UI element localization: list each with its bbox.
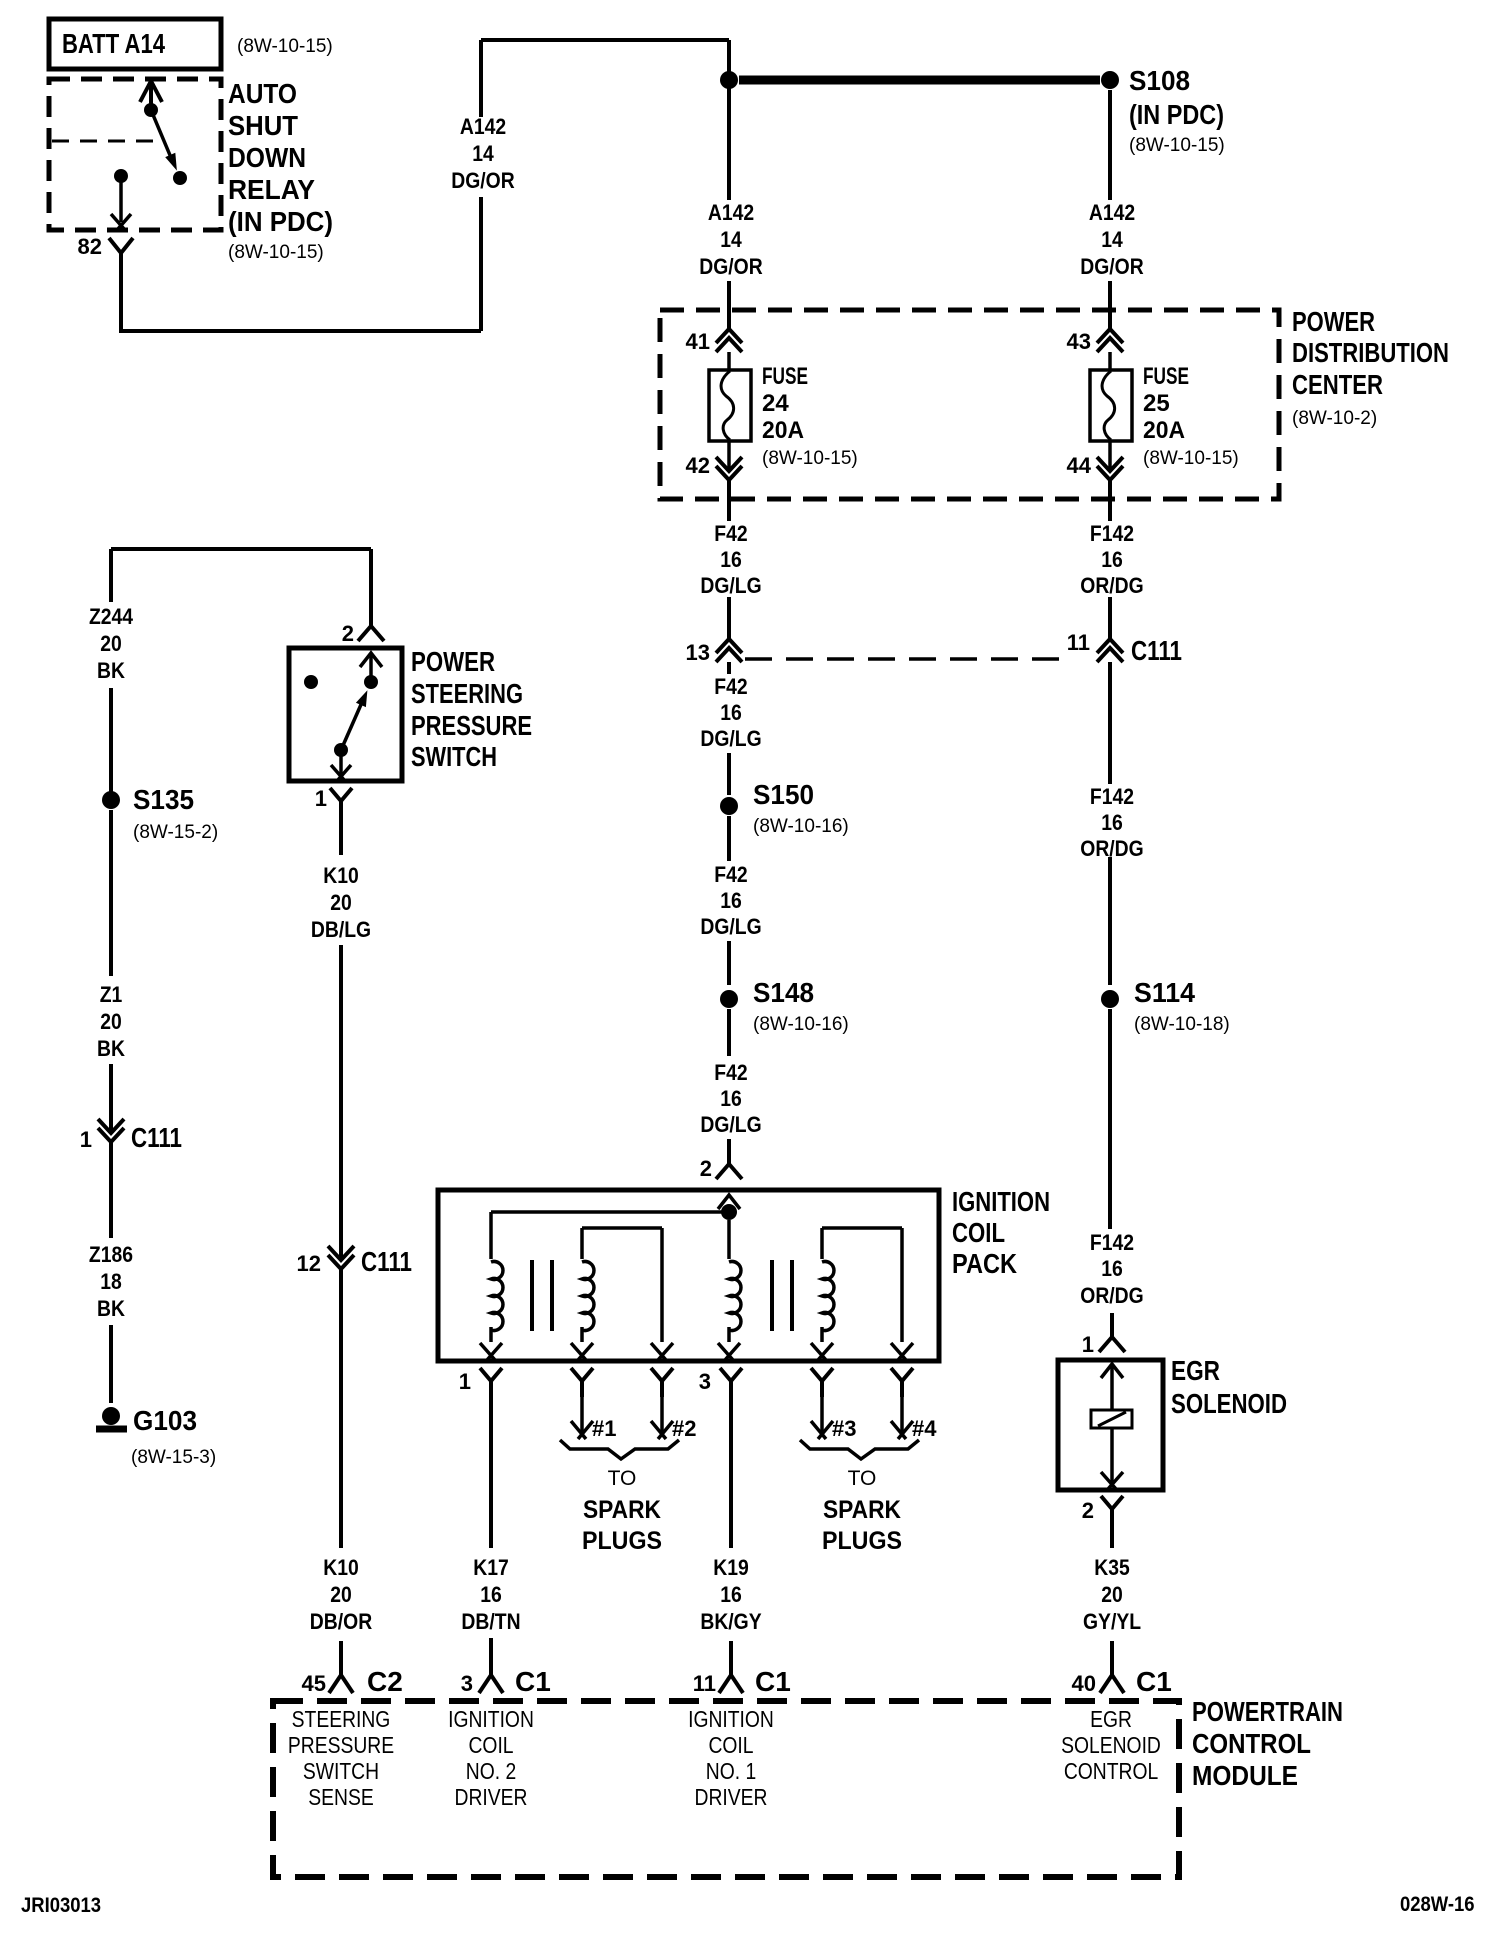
svg-text:S114: S114	[1134, 977, 1195, 1008]
wire switch pin1 to C111 pin 12	[339, 817, 343, 1259]
svg-text:(8W-10-16): (8W-10-16)	[753, 816, 849, 837]
svg-text:STEERING: STEERING	[292, 1708, 391, 1733]
PCM pin 11 connector C1	[693, 1641, 791, 1697]
svg-text:DRIVER: DRIVER	[455, 1786, 528, 1811]
svg-text:NO. 1: NO. 1	[706, 1760, 756, 1785]
fuse 24 labels	[762, 363, 858, 469]
wire fuse24 to C111 pin 13	[727, 480, 731, 639]
spark plug lead #2 arrow	[651, 1397, 696, 1441]
wire label A142 14 DG/OR (left)	[451, 115, 514, 193]
svg-text:JRI03013: JRI03013	[21, 1894, 101, 1917]
ground G103 labels	[131, 1405, 216, 1468]
svg-text:2: 2	[342, 621, 354, 646]
splice S135 labels	[133, 784, 218, 843]
power distribution center dashed box	[660, 310, 1279, 499]
svg-text:SPARK: SPARK	[583, 1496, 661, 1524]
PDC pin 43 connector	[1067, 329, 1123, 354]
svg-text:STEERING: STEERING	[411, 678, 523, 709]
svg-text:(8W-10-18): (8W-10-18)	[1134, 1014, 1230, 1035]
switch output arrow to pin 1	[331, 750, 351, 781]
fuse 24 symbol	[709, 352, 751, 441]
EGR solenoid pin 1 connector	[1082, 1332, 1125, 1357]
svg-text:RELAY: RELAY	[228, 174, 315, 205]
svg-text:C1: C1	[755, 1666, 791, 1697]
ignition coil pack box	[438, 1190, 939, 1361]
svg-text:F142: F142	[1090, 785, 1134, 809]
svg-text:NO. 2: NO. 2	[466, 1760, 516, 1785]
ignition coil pin 2 connector	[700, 1156, 742, 1181]
svg-text:DOWN: DOWN	[228, 142, 306, 173]
svg-text:SHUT: SHUT	[228, 110, 298, 141]
ignition coil pack labels	[952, 1186, 1050, 1279]
svg-text:20: 20	[330, 891, 352, 915]
wire label Z244 20 BK	[89, 605, 134, 683]
auto shut down relay dashed box	[49, 79, 221, 230]
svg-text:2: 2	[1082, 1498, 1094, 1523]
svg-text:K35: K35	[1094, 1556, 1130, 1580]
svg-text:A142: A142	[460, 115, 506, 139]
wire coil pin3 to PCM	[729, 1397, 733, 1548]
svg-text:(8W-10-2): (8W-10-2)	[1292, 408, 1377, 429]
svg-text:20: 20	[1101, 1583, 1123, 1607]
connector C111 pin 1	[80, 1119, 182, 1153]
svg-text:13: 13	[686, 640, 710, 665]
svg-text:K10: K10	[323, 864, 359, 888]
svg-text:16: 16	[720, 889, 742, 913]
wire label F142 16 OR/DG (above C111)	[1080, 522, 1143, 598]
svg-text:DG/OR: DG/OR	[699, 255, 762, 279]
svg-text:MODULE: MODULE	[1192, 1760, 1298, 1791]
label TO SPARK PLUGS (right)	[822, 1467, 902, 1555]
svg-text:SPARK: SPARK	[823, 1496, 901, 1524]
splice S108 labels	[1129, 65, 1225, 156]
svg-text:1: 1	[1082, 1332, 1094, 1357]
svg-text:PRESSURE: PRESSURE	[288, 1734, 394, 1759]
ignition coil secondary winding no.2	[571, 1228, 673, 1360]
wire label F142 16 OR/DG (above S114)	[1080, 785, 1143, 861]
svg-text:14: 14	[720, 228, 742, 252]
svg-text:PRESSURE: PRESSURE	[411, 710, 532, 741]
thick bus wire to splice S108	[739, 76, 1100, 85]
wire label K19 16 BK/GY	[700, 1556, 761, 1634]
svg-text:IGNITION: IGNITION	[952, 1186, 1050, 1217]
C111 in-line connector dashed link	[745, 657, 1068, 661]
svg-text:25: 25	[1143, 390, 1170, 417]
wire ground bus to switch pin 2	[111, 549, 371, 626]
svg-text:82: 82	[78, 234, 102, 259]
svg-text:IGNITION: IGNITION	[448, 1708, 534, 1733]
wire C111-1 to ground	[109, 1142, 113, 1403]
svg-text:DG/LG: DG/LG	[700, 1113, 761, 1137]
wire label A142 14 DG/OR (right)	[1080, 201, 1143, 279]
wire label F42 16 DG/LG (below C111)	[700, 675, 761, 751]
relay name label AUTO SHUT DOWN RELAY (IN PDC)	[228, 78, 333, 263]
PCM label EGR solenoid control	[1061, 1708, 1161, 1785]
relay output contact dot	[114, 169, 128, 183]
svg-text:1: 1	[315, 786, 327, 811]
svg-text:11: 11	[693, 1671, 716, 1696]
connector C111 pin 11	[1067, 630, 1182, 666]
splice S148 labels	[753, 977, 849, 1035]
svg-text:C1: C1	[1136, 1666, 1172, 1697]
EGR pin 2 connector	[1082, 1496, 1123, 1525]
svg-text:DB/LG: DB/LG	[311, 918, 371, 942]
spark plug lead #3 arrow	[811, 1397, 856, 1441]
svg-text:16: 16	[720, 548, 742, 572]
svg-text:45: 45	[302, 1671, 326, 1696]
connector C111 pin 13	[686, 639, 742, 665]
svg-text:C111: C111	[361, 1246, 412, 1277]
powertrain control module title	[1192, 1696, 1343, 1791]
svg-text:18: 18	[100, 1270, 122, 1294]
PCM pin 40 connector C1	[1072, 1641, 1172, 1697]
svg-text:16: 16	[720, 1583, 742, 1607]
PCM label steering pressure switch sense	[288, 1708, 394, 1811]
splice S148 dot	[720, 990, 738, 1008]
svg-text:S148: S148	[753, 977, 814, 1008]
svg-text:#2: #2	[672, 1416, 696, 1441]
svg-text:(IN PDC): (IN PDC)	[228, 206, 333, 237]
svg-text:SOLENOID: SOLENOID	[1171, 1388, 1287, 1419]
svg-text:Z1: Z1	[100, 983, 123, 1007]
wire S108 to PDC fuse 25	[1108, 90, 1112, 329]
wire label F142 16 OR/DG (above EGR)	[1080, 1231, 1143, 1308]
svg-text:(8W-10-15): (8W-10-15)	[762, 448, 858, 469]
svg-text:16: 16	[1101, 548, 1123, 572]
svg-text:DG/OR: DG/OR	[451, 169, 514, 193]
splice S150 labels	[753, 779, 849, 837]
coil no.1 core lines	[772, 1260, 792, 1331]
svg-text:11: 11	[1067, 630, 1090, 655]
svg-text:14: 14	[1101, 228, 1123, 252]
svg-text:(8W-10-16): (8W-10-16)	[753, 1014, 849, 1035]
svg-text:S135: S135	[133, 784, 194, 815]
svg-text:F42: F42	[714, 863, 747, 887]
svg-text:20: 20	[100, 1010, 122, 1034]
svg-text:CENTER: CENTER	[1292, 369, 1383, 400]
relay movable contact pivot dot	[144, 103, 158, 117]
svg-text:PLUGS: PLUGS	[822, 1527, 902, 1555]
switch blade arrow	[341, 690, 367, 750]
footer sheet number 028W-16	[1400, 1893, 1475, 1916]
wire junction to PDC fuse 24	[727, 40, 731, 329]
svg-text:16: 16	[720, 1087, 742, 1111]
svg-text:K10: K10	[323, 1556, 359, 1580]
svg-text:40: 40	[1072, 1671, 1096, 1696]
svg-text:DB/OR: DB/OR	[310, 1610, 372, 1634]
svg-text:#1: #1	[592, 1416, 616, 1441]
svg-text:DRIVER: DRIVER	[695, 1786, 768, 1811]
relay coil actuation dashed line	[52, 140, 162, 143]
wire label K10 20 DB/LG	[311, 864, 371, 942]
svg-text:POWERTRAIN: POWERTRAIN	[1192, 1696, 1343, 1727]
svg-text:DG/LG: DG/LG	[700, 915, 761, 939]
fuse 25 symbol	[1090, 352, 1132, 441]
svg-text:43: 43	[1067, 329, 1091, 354]
coil pack pin 1 connector	[459, 1368, 502, 1397]
svg-text:OR/DG: OR/DG	[1080, 1284, 1143, 1308]
coil pack pin 2 entry arrowhead	[718, 1195, 740, 1209]
svg-text:BATT A14: BATT A14	[62, 28, 165, 59]
switch pivot dot	[334, 743, 348, 757]
splice S114 dot	[1101, 990, 1119, 1008]
svg-text:DG/LG: DG/LG	[700, 574, 761, 598]
switch internal fixed contact arrow	[360, 653, 382, 682]
splice S135 dot	[102, 791, 120, 809]
svg-text:EGR: EGR	[1090, 1708, 1132, 1733]
svg-text:SWITCH: SWITCH	[303, 1760, 379, 1785]
wire S114 to EGR solenoid pin 1	[1110, 1009, 1112, 1337]
PDC pin 42 connector	[686, 441, 742, 480]
relay stationary contact dot (NO)	[173, 171, 187, 185]
wire C111-12 to PCM pin 45	[339, 1269, 343, 1548]
powertrain control module dashed box	[273, 1701, 1179, 1877]
svg-text:C2: C2	[367, 1666, 403, 1697]
relay switch blade arrow	[151, 110, 177, 171]
wire coil pin1 to PCM	[489, 1397, 493, 1548]
svg-text:1: 1	[459, 1369, 471, 1394]
svg-text:TO: TO	[608, 1467, 637, 1490]
svg-text:1: 1	[80, 1127, 92, 1152]
brace under #1 #2	[560, 1440, 679, 1459]
wire label Z1 20 BK	[97, 983, 125, 1061]
wire fuse25 to C111 pin 11	[1108, 480, 1112, 639]
ignition coil secondary winding no.1	[811, 1228, 913, 1360]
svg-text:F42: F42	[714, 675, 747, 699]
svg-text:20A: 20A	[762, 417, 804, 444]
wire label K35 20 GY/YL	[1083, 1556, 1141, 1634]
svg-text:(8W-10-15): (8W-10-15)	[237, 36, 333, 57]
svg-text:F142: F142	[1090, 522, 1134, 546]
svg-text:CONTROL: CONTROL	[1192, 1728, 1311, 1759]
EGR internal output arrow	[1101, 1428, 1123, 1489]
wire S148 to ignition coil pin 2	[727, 1009, 731, 1164]
svg-text:POWER: POWER	[1292, 306, 1375, 337]
svg-text:(8W-10-15): (8W-10-15)	[228, 242, 324, 263]
coil pack secondary output connectors (right pair)	[811, 1368, 913, 1397]
svg-text:DB/TN: DB/TN	[461, 1610, 520, 1634]
label TO SPARK PLUGS (left)	[582, 1467, 662, 1555]
PCM label ignition coil no 1 driver	[688, 1708, 774, 1811]
power steering pressure switch box	[289, 648, 402, 781]
svg-text:16: 16	[1101, 811, 1123, 835]
PCM pin 3 connector C1	[461, 1638, 551, 1697]
svg-text:AUTO: AUTO	[228, 78, 297, 109]
wire switch pin2 branch to ground column	[109, 549, 113, 602]
ground symbol G103	[96, 1407, 127, 1429]
footer drawing number JRI03013	[21, 1894, 101, 1917]
coil pack secondary output connectors (left pair)	[571, 1368, 673, 1397]
svg-text:PACK: PACK	[952, 1248, 1017, 1279]
wire S135 to C111 pin 1	[109, 810, 113, 1132]
svg-text:Z244: Z244	[89, 605, 134, 629]
coil pack pin 3 connector	[699, 1368, 742, 1397]
svg-text:(8W-15-3): (8W-15-3)	[131, 1447, 216, 1468]
wire C111-13 to splice S150	[727, 662, 731, 795]
PCM label ignition coil no 2 driver	[448, 1708, 534, 1811]
svg-text:12: 12	[297, 1251, 321, 1276]
svg-text:SOLENOID: SOLENOID	[1061, 1734, 1161, 1759]
svg-text:SWITCH: SWITCH	[411, 741, 497, 772]
svg-text:K19: K19	[713, 1556, 749, 1580]
coil pack internal bus wire	[491, 1210, 729, 1214]
relay output arrow to pin 82	[111, 176, 131, 230]
switch internal contact dots	[304, 675, 378, 689]
svg-text:#3: #3	[832, 1416, 856, 1441]
svg-text:3: 3	[461, 1671, 473, 1696]
fuse 25 labels	[1143, 363, 1239, 469]
svg-text:SENSE: SENSE	[308, 1786, 373, 1811]
svg-text:BK: BK	[97, 1297, 125, 1321]
svg-text:BK: BK	[97, 1037, 125, 1061]
svg-text:20: 20	[100, 632, 122, 656]
svg-text:OR/DG: OR/DG	[1080, 837, 1143, 861]
svg-text:14: 14	[472, 142, 494, 166]
relay pin 82 connector	[78, 234, 133, 271]
svg-text:#4: #4	[912, 1416, 937, 1441]
brace under #3 #4	[800, 1440, 919, 1459]
svg-text:CONTROL: CONTROL	[1064, 1760, 1159, 1785]
coil no.2 core lines	[532, 1260, 552, 1331]
svg-text:TO: TO	[848, 1467, 877, 1490]
svg-text:20A: 20A	[1143, 417, 1185, 444]
wire label F42 16 DG/LG (above coil)	[700, 1061, 761, 1137]
switch pin 2 connector	[342, 621, 384, 646]
svg-text:A142: A142	[708, 201, 754, 225]
connector C111 pin 12	[297, 1246, 412, 1277]
svg-text:C111: C111	[131, 1122, 182, 1153]
relay fixed contact arrow to BATT A14	[140, 81, 162, 110]
junction node dot at top bus	[720, 71, 738, 89]
EGR solenoid box	[1058, 1360, 1163, 1490]
svg-text:DG/OR: DG/OR	[1080, 255, 1143, 279]
svg-text:41: 41	[686, 329, 710, 354]
svg-text:F42: F42	[714, 522, 747, 546]
wire label K17 16 DB/TN	[461, 1556, 520, 1634]
svg-text:G103: G103	[133, 1405, 197, 1436]
svg-text:C1: C1	[515, 1666, 551, 1697]
splice S108 dot	[1101, 71, 1119, 89]
battery feed box BATT A14	[49, 19, 221, 69]
svg-text:44: 44	[1067, 453, 1092, 478]
PCM pin 45 connector C2	[302, 1641, 403, 1697]
svg-text:S150: S150	[753, 779, 814, 810]
svg-text:20: 20	[330, 1583, 352, 1607]
svg-text:42: 42	[686, 453, 710, 478]
svg-text:2: 2	[700, 1156, 712, 1181]
svg-text:FUSE: FUSE	[1143, 363, 1189, 390]
wire Z244 to splice S135	[109, 688, 113, 792]
svg-text:DG/LG: DG/LG	[700, 727, 761, 751]
svg-text:F142: F142	[1090, 1231, 1134, 1255]
power distribution center labels	[1292, 306, 1449, 429]
svg-text:BK/GY: BK/GY	[700, 1610, 761, 1634]
wire S150 to splice S148	[727, 816, 731, 985]
reference label (8W-10-15) for BATT A14	[237, 36, 333, 57]
spark plug lead #1 arrow	[571, 1397, 616, 1441]
splice S114 labels	[1134, 977, 1230, 1035]
power steering pressure switch labels	[411, 646, 532, 772]
switch pin 1 connector	[315, 786, 352, 817]
EGR solenoid labels	[1171, 1355, 1287, 1419]
svg-text:IGNITION: IGNITION	[688, 1708, 774, 1733]
ignition coil primary winding no.1 (right)	[718, 1220, 741, 1360]
EGR solenoid coil symbol	[1091, 1410, 1132, 1428]
splice S150 dot	[720, 797, 738, 815]
svg-text:POWER: POWER	[411, 646, 495, 677]
svg-text:EGR: EGR	[1171, 1355, 1220, 1386]
wire C111-11 to splice S114	[1108, 662, 1112, 985]
svg-text:BK: BK	[97, 659, 125, 683]
svg-text:GY/YL: GY/YL	[1083, 1610, 1141, 1634]
svg-text:COIL: COIL	[708, 1734, 753, 1759]
svg-text:(8W-10-15): (8W-10-15)	[1129, 135, 1225, 156]
wire label A142 14 DG/OR (middle)	[699, 201, 762, 279]
svg-text:OR/DG: OR/DG	[1080, 574, 1143, 598]
wire from relay pin 82 to top bus corner	[121, 40, 729, 331]
EGR internal entry arrowhead	[1101, 1364, 1123, 1410]
coil pack internal junction dot	[721, 1204, 737, 1220]
svg-text:A142: A142	[1089, 201, 1135, 225]
svg-text:028W-16: 028W-16	[1400, 1893, 1475, 1916]
svg-text:FUSE: FUSE	[762, 363, 808, 390]
wire label K10 20 DB/OR	[310, 1556, 372, 1634]
svg-text:F42: F42	[714, 1061, 747, 1085]
wire label Z186 18 BK	[89, 1243, 133, 1321]
svg-text:PLUGS: PLUGS	[582, 1527, 662, 1555]
ignition coil primary winding no.2 (left)	[480, 1212, 503, 1360]
PDC pin 44 connector	[1067, 441, 1123, 480]
svg-text:C111: C111	[1131, 635, 1182, 666]
svg-text:K17: K17	[473, 1556, 509, 1580]
PDC pin 41 connector	[686, 329, 742, 354]
svg-text:24: 24	[762, 390, 789, 417]
svg-text:(8W-10-15): (8W-10-15)	[1143, 448, 1239, 469]
wire EGR pin 2 to PCM pin 40	[1110, 1525, 1114, 1548]
wire label F42 16 DG/LG (above S148)	[700, 863, 761, 939]
svg-text:16: 16	[1101, 1257, 1123, 1281]
svg-text:DISTRIBUTION: DISTRIBUTION	[1292, 337, 1449, 368]
svg-text:COIL: COIL	[952, 1217, 1005, 1248]
svg-text:(IN PDC): (IN PDC)	[1129, 99, 1224, 130]
spark plug lead #4 arrow	[891, 1397, 937, 1441]
svg-text:(8W-15-2): (8W-15-2)	[133, 822, 218, 843]
svg-text:Z186: Z186	[89, 1243, 133, 1267]
svg-text:COIL: COIL	[468, 1734, 513, 1759]
svg-text:16: 16	[720, 701, 742, 725]
svg-text:16: 16	[480, 1583, 502, 1607]
wire label F42 16 DG/LG (above C111)	[700, 522, 761, 598]
svg-text:3: 3	[699, 1369, 711, 1394]
svg-text:S108: S108	[1129, 65, 1190, 96]
